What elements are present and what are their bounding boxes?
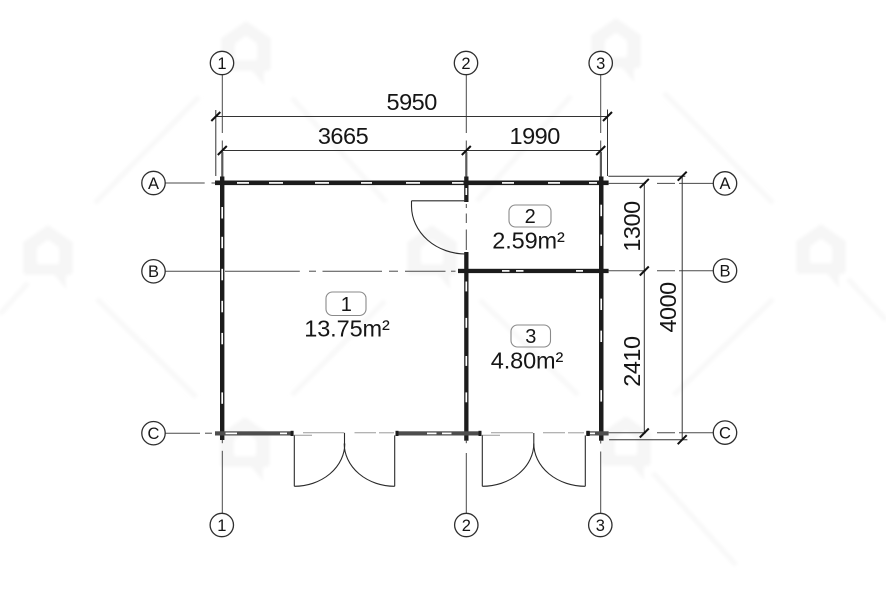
- svg-text:1: 1: [217, 517, 226, 535]
- svg-text:1300: 1300: [619, 201, 645, 252]
- svg-text:2: 2: [525, 206, 536, 228]
- svg-text:13.75m²: 13.75m²: [304, 316, 390, 342]
- svg-text:A: A: [719, 175, 730, 193]
- svg-text:4.80m²: 4.80m²: [491, 348, 564, 374]
- svg-text:C: C: [148, 425, 160, 443]
- svg-text:3665: 3665: [318, 123, 369, 149]
- svg-text:2410: 2410: [619, 336, 645, 387]
- svg-text:1990: 1990: [510, 123, 561, 149]
- svg-text:4000: 4000: [655, 282, 681, 333]
- svg-text:3: 3: [596, 517, 605, 535]
- svg-text:3: 3: [596, 55, 605, 73]
- svg-text:3: 3: [525, 326, 536, 348]
- svg-text:A: A: [148, 175, 159, 193]
- svg-text:1: 1: [217, 55, 226, 73]
- svg-text:B: B: [719, 262, 730, 280]
- svg-text:B: B: [148, 263, 159, 281]
- svg-text:C: C: [719, 424, 731, 442]
- svg-text:5950: 5950: [387, 89, 438, 115]
- svg-text:2: 2: [462, 517, 471, 535]
- svg-text:2.59m²: 2.59m²: [492, 228, 565, 254]
- svg-text:2: 2: [461, 55, 470, 73]
- svg-text:1: 1: [341, 294, 352, 316]
